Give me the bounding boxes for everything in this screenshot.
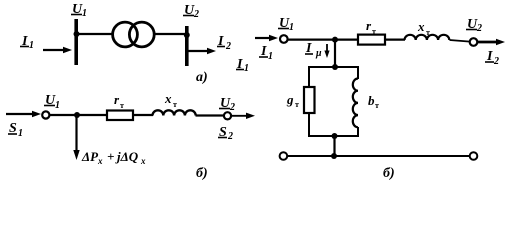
svg-text:1: 1 bbox=[289, 22, 294, 33]
wire xt to output terminal bbox=[450, 40, 471, 42]
resistor rt (box) bbox=[358, 35, 385, 45]
svg-text:1: 1 bbox=[29, 40, 34, 51]
label bt bbox=[368, 93, 379, 110]
wire coil to terminal bbox=[196, 114, 225, 116]
svg-text:т: т bbox=[426, 28, 430, 37]
svg-text:1: 1 bbox=[18, 128, 23, 139]
wire terminal to rt bbox=[288, 38, 359, 40]
vertical wire to shunt bbox=[334, 40, 336, 67]
transformer T (two overlapping circles) bbox=[113, 22, 155, 47]
arrow S2 output bbox=[231, 113, 255, 119]
label U2 (bus 2 voltage) bbox=[183, 3, 199, 20]
arrow S1 input bbox=[6, 111, 41, 117]
svg-text:1: 1 bbox=[244, 63, 249, 74]
node dot on busbar 1 bbox=[74, 31, 80, 37]
svg-text:б): б) bbox=[383, 166, 395, 181]
svg-text:т: т bbox=[173, 100, 177, 109]
vertical wire shunt to bottom line bbox=[333, 136, 335, 156]
svg-text:g: g bbox=[286, 92, 294, 107]
arrow I2 out of busbar 2 bbox=[188, 48, 216, 54]
left shunt branch upper wire bbox=[308, 66, 310, 87]
label rt bbox=[366, 18, 376, 36]
wire terminal to resistor bbox=[50, 114, 109, 116]
label I2 (current out of bus 2) bbox=[217, 34, 231, 52]
node dot bottom of shunt bbox=[332, 133, 338, 139]
terminal circle input top bbox=[280, 35, 288, 43]
terminal circle output top bbox=[470, 38, 478, 46]
svg-text:т: т bbox=[120, 101, 124, 110]
svg-text:1: 1 bbox=[55, 100, 60, 111]
svg-text:т: т bbox=[295, 100, 299, 109]
busbar 2 (right vertical bar) bbox=[185, 26, 189, 66]
right shunt branch upper wire bbox=[357, 66, 359, 79]
right shunt branch lower wire bbox=[357, 127, 359, 137]
svg-text:а): а) bbox=[196, 70, 208, 85]
inductor xt (coil) bbox=[153, 110, 196, 115]
junction dot on bottom line bbox=[331, 153, 337, 159]
node dot top of shunt bbox=[332, 64, 338, 70]
svg-text:x: x bbox=[164, 91, 172, 106]
label S2 bbox=[218, 125, 233, 142]
label U1 bbox=[278, 16, 294, 33]
svg-text:т: т bbox=[372, 27, 376, 36]
label xt bbox=[417, 19, 430, 37]
svg-text:т: т bbox=[375, 101, 379, 110]
svg-text:2: 2 bbox=[193, 9, 199, 20]
label gt bbox=[286, 92, 299, 109]
node dot on busbar 2 bbox=[184, 32, 190, 38]
label U1 (bus 1 voltage) bbox=[71, 2, 87, 19]
wire rt to xt bbox=[385, 38, 405, 40]
arrow I1 input bbox=[255, 35, 278, 41]
svg-text:х: х bbox=[140, 156, 146, 166]
label I1 (current into bus 1) bbox=[20, 34, 34, 51]
bottom return line bbox=[287, 155, 470, 157]
label dPx + jdQx bbox=[81, 149, 146, 166]
junction dot (shunt losses tap) bbox=[74, 112, 80, 118]
label I1 bbox=[259, 44, 273, 62]
terminal circle U2 bbox=[224, 112, 231, 119]
busbar 1 (left vertical bar) bbox=[74, 19, 78, 65]
svg-text:1: 1 bbox=[268, 51, 273, 62]
wire transformer to busbar 2 bbox=[154, 33, 188, 35]
stray label I1 (between figures) bbox=[236, 57, 249, 74]
svg-text:2: 2 bbox=[227, 131, 233, 142]
resistor rt (box) bbox=[107, 111, 133, 121]
inductor xt (coil) bbox=[405, 35, 450, 40]
svg-text:2: 2 bbox=[229, 102, 235, 113]
svg-text:μ: μ bbox=[315, 48, 322, 59]
terminal circle output bottom bbox=[470, 152, 478, 160]
label xt bbox=[164, 91, 177, 109]
svg-text:b: b bbox=[368, 93, 375, 108]
arrow I1 into busbar 1 bbox=[43, 47, 72, 53]
svg-text:б): б) bbox=[196, 166, 208, 181]
label rt bbox=[114, 92, 124, 110]
svg-text:x: x bbox=[417, 19, 425, 34]
wire resistor to coil bbox=[133, 114, 153, 116]
label S1 bbox=[8, 121, 23, 139]
svg-text:+: + bbox=[107, 149, 114, 164]
svg-text:2: 2 bbox=[476, 23, 482, 34]
arrow I2 output bbox=[478, 39, 506, 45]
svg-text:1: 1 bbox=[82, 8, 87, 19]
inductor bt (vertical coil) bbox=[353, 79, 358, 128]
svg-text:ΔP: ΔP bbox=[81, 149, 99, 164]
terminal circle input bottom bbox=[280, 152, 288, 160]
terminal circle U1 bbox=[42, 111, 49, 118]
label U1 bbox=[44, 93, 60, 111]
svg-text:2: 2 bbox=[225, 41, 231, 52]
left shunt branch lower wire bbox=[308, 113, 310, 137]
label U2 bbox=[219, 96, 235, 113]
resistor gt (vertical box) bbox=[304, 87, 315, 113]
wire busbar1 to transformer bbox=[76, 33, 114, 35]
svg-text:х: х bbox=[97, 156, 103, 166]
label Imu with down arrow bbox=[305, 41, 330, 59]
svg-text:jΔQ: jΔQ bbox=[115, 149, 139, 164]
junction dot magnetizing branch bbox=[332, 37, 338, 43]
label I2 bbox=[485, 49, 499, 67]
arrow down (no-load losses) bbox=[73, 116, 79, 160]
label U2 bbox=[466, 17, 482, 34]
shunt bottom rail bbox=[308, 135, 358, 137]
shunt top rail bbox=[308, 66, 358, 68]
